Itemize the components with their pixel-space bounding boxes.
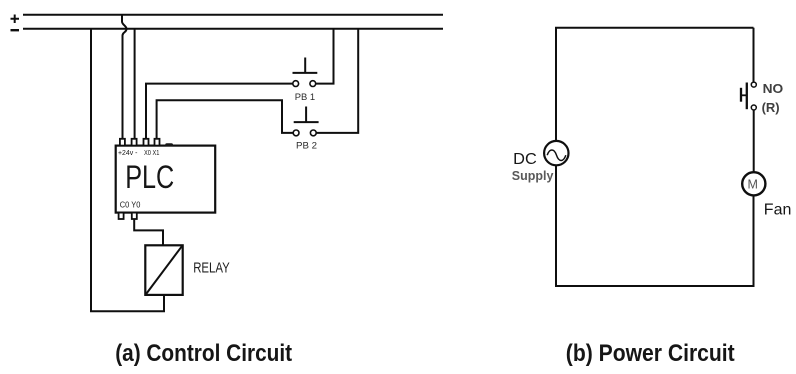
svg-text:+24v -: +24v -	[118, 148, 138, 157]
svg-text:X0 X1: X0 X1	[144, 148, 159, 157]
svg-text:PLC: PLC	[125, 159, 174, 195]
svg-text:Fan: Fan	[764, 201, 792, 218]
svg-text:NO: NO	[763, 81, 784, 96]
svg-text:(a) Control Circuit: (a) Control Circuit	[115, 340, 292, 367]
svg-text:C0 Y0: C0 Y0	[120, 200, 141, 210]
svg-text:RELAY: RELAY	[193, 261, 230, 277]
svg-text:PB 1: PB 1	[295, 92, 315, 103]
svg-text:PB 2: PB 2	[296, 140, 317, 151]
svg-text:M: M	[748, 177, 758, 191]
svg-text:DC: DC	[513, 151, 537, 168]
svg-text:(R): (R)	[762, 100, 780, 115]
svg-text:(b) Power Circuit: (b) Power Circuit	[566, 340, 735, 367]
svg-text:Supply: Supply	[512, 169, 554, 183]
